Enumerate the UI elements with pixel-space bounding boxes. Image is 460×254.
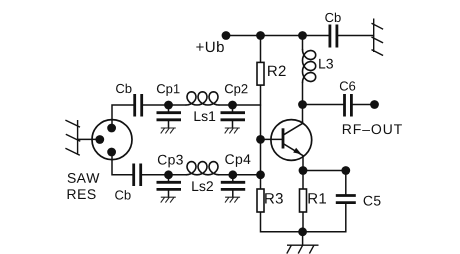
resistor R2 — [257, 62, 264, 85]
label Ls2 — [192, 181, 213, 191]
wire R2 bottom down through base node to R3 — [260, 85, 262, 189]
SAW resonator case — [92, 120, 132, 160]
terminal +Ub — [222, 31, 231, 40]
label Cb top right — [325, 13, 340, 23]
capacitor Cb (bottom left) — [134, 164, 141, 187]
label Cb top left — [116, 84, 131, 94]
node base — [256, 135, 265, 144]
node lower rail R3 column — [256, 170, 265, 179]
wire collector node to C6 — [303, 105, 344, 121]
transistor Q1 — [271, 120, 312, 161]
capacitor C5 — [336, 196, 356, 203]
label R1 — [309, 193, 327, 203]
capacitor C6 — [345, 94, 352, 117]
label R2 — [268, 66, 286, 77]
label SAW — [68, 173, 100, 183]
label Cp1 — [157, 84, 180, 96]
label Cb bottom left — [115, 190, 130, 200]
capacitor Cp2 — [221, 113, 246, 120]
node top rail L3 — [298, 31, 307, 40]
node bottom ground — [298, 227, 307, 236]
label RF-OUT — [343, 124, 402, 134]
node Cp4 — [228, 170, 237, 179]
node Cp2 — [228, 101, 237, 110]
wire Cp1 stubs — [168, 105, 170, 128]
label L3 — [319, 59, 333, 69]
wire emitter node down to R1 — [302, 157, 304, 190]
capacitor Cb (top right) — [330, 25, 337, 48]
capacitor Cp4 — [221, 182, 245, 189]
wire L3 bottom to collector node — [302, 83, 304, 105]
ground Cp3 — [161, 197, 176, 202]
SAW pin left — [95, 135, 104, 144]
label Cp4 — [225, 154, 250, 167]
label +Ub — [196, 41, 224, 52]
inductor Ls2 — [186, 162, 219, 175]
wire C5 bottom to ground node — [303, 204, 346, 232]
wire R3 bottom to ground node — [261, 212, 303, 232]
label R3 — [265, 193, 283, 204]
wire SAW bottom pin to lower Cb — [112, 152, 132, 175]
wire Cp4 stubs — [232, 175, 234, 197]
capacitor Cp1 — [157, 113, 182, 120]
terminal RF-OUT — [370, 100, 379, 109]
ground left (SAW) — [65, 120, 80, 155]
wire from Cb to top-right ground — [338, 35, 373, 37]
label Ls1 — [195, 111, 216, 121]
wire emitter node to C5 top — [303, 171, 346, 195]
wire C6 to RF-OUT terminal — [353, 104, 375, 106]
wire Cp3 stubs — [168, 175, 170, 197]
capacitor Cp3 — [157, 182, 182, 189]
wire SAW top pin to Cb — [112, 105, 133, 128]
resistor R1 — [300, 189, 307, 212]
ground Cp4 — [225, 197, 240, 202]
ground bottom (emitter) — [287, 245, 319, 253]
wire L3 branch top — [302, 36, 304, 50]
ground Cp2 — [225, 128, 240, 133]
resistor R3 — [257, 189, 264, 212]
label RES — [68, 189, 96, 199]
wire Cp2 stubs — [232, 105, 234, 128]
wire top supply rail — [226, 35, 328, 37]
inductor Ls1 — [186, 92, 219, 105]
wire Cb to Cp1 node — [143, 104, 186, 106]
label C6 — [340, 81, 355, 90]
ground top right — [372, 19, 384, 56]
wire lower Cb to Cp3 node — [142, 174, 186, 176]
label Cp2 — [225, 84, 248, 96]
wire R2 branch top — [260, 36, 262, 63]
node C5 top — [341, 166, 350, 175]
node emitter — [299, 166, 308, 175]
node collector — [298, 100, 307, 109]
wire Ls2 to Cp4 node and R3 column — [219, 174, 261, 176]
wire Ls1 to Cp2 node and R2 column — [219, 104, 261, 106]
wire base — [261, 138, 284, 140]
ground Cp1 — [161, 128, 176, 133]
label Cp3 — [158, 155, 183, 168]
wire R1 bottom to ground node — [302, 212, 304, 245]
node top rail R2 — [256, 31, 265, 40]
SAW pin top — [107, 124, 116, 133]
node Cp1 — [164, 101, 173, 110]
label C5 — [364, 196, 381, 206]
node Cp3 — [164, 170, 173, 179]
wire SAW left pin to ground — [78, 138, 100, 140]
inductor L3 — [303, 50, 316, 83]
capacitor Cb (top left) — [135, 94, 142, 117]
SAW pin bottom — [107, 148, 116, 157]
